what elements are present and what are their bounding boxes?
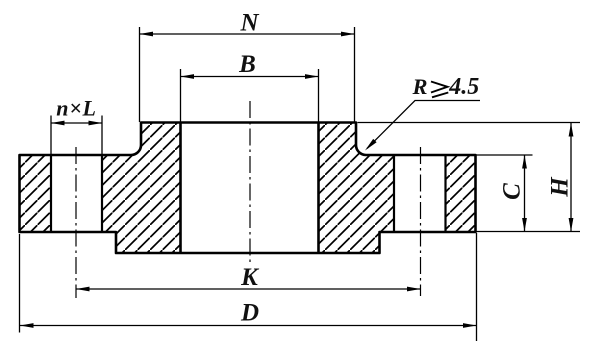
hatch: right outer flange section — [446, 155, 476, 232]
dimension H: top extension line from hub top — [358, 122, 581, 124]
bolt hole right: right edge — [444, 155, 446, 232]
dimension B: right arrow — [305, 74, 319, 79]
dimension nxL: dimension line — [51, 122, 102, 124]
bolt hole left: left edge — [50, 155, 52, 232]
svg-text:N: N — [239, 10, 259, 37]
svg-text:K: K — [240, 264, 260, 291]
outline: flange outer profile with hub and fillets — [20, 123, 476, 254]
dimension N: right arrow — [341, 32, 355, 37]
dimension D: left arrow — [20, 323, 34, 328]
dimension C: top arrow — [522, 155, 527, 169]
dimension D: right arrow — [463, 323, 477, 328]
outline: bore left wall — [179, 123, 182, 254]
leader R>=4.5: slanted greater-equal symbol — [431, 82, 448, 98]
centerline: left bolt hole axis / K extension — [75, 147, 77, 298]
dimension C: bottom arrow — [522, 218, 527, 232]
dimension H: dimension line — [570, 123, 572, 232]
hatch: left hub-to-bore wall section — [102, 123, 181, 254]
dimension D: right extension line — [476, 233, 478, 341]
svg-text:C: C — [499, 183, 526, 200]
centerline: central bore axis — [249, 101, 251, 262]
svg-text:4.5: 4.5 — [448, 74, 479, 100]
dimension B: dimension line — [181, 76, 319, 78]
hatch: left outer flange section — [20, 155, 52, 232]
dimension K: left arrow — [76, 287, 90, 292]
leader R>=4.5: arrowhead at fillet — [365, 139, 377, 151]
dimension N: extension lines — [139, 27, 141, 122]
leader R>=4.5: shoulder and diagonal — [367, 101, 480, 149]
dimension nxL: right arrow — [89, 121, 103, 126]
dimension K: right arrow — [407, 287, 421, 292]
bolt hole right: left edge — [393, 155, 395, 232]
dimension B: left arrow — [181, 74, 195, 79]
svg-text:D: D — [240, 299, 259, 326]
dimension N: dimension line — [140, 33, 355, 35]
bolt hole left: right edge — [101, 155, 103, 232]
dimension H: bottom arrow — [569, 218, 574, 232]
dimension N: left arrow — [140, 32, 154, 37]
dimension nxL: extension lines — [50, 116, 52, 156]
dimension H: top arrow — [569, 123, 574, 137]
svg-text:B: B — [238, 51, 256, 78]
dimension K: dimension line — [76, 288, 421, 290]
dimension C and H: bottom extension line — [477, 231, 581, 233]
dimension C: dimension line — [524, 155, 526, 232]
dimension nxL: left arrow — [51, 121, 65, 126]
svg-text:H: H — [547, 176, 574, 198]
svg-text:R: R — [412, 74, 428, 99]
centerline: right bolt hole axis / K extension — [420, 147, 422, 296]
svg-text:n×L: n×L — [56, 96, 97, 121]
dimension B: extension lines — [180, 69, 182, 122]
dimension D: left extension line — [19, 234, 21, 333]
hatch: right hub-to-bore wall section — [319, 123, 395, 254]
outline: bore right wall — [317, 123, 320, 254]
dimension D: dimension line — [20, 325, 477, 327]
dimension C: top extension line — [477, 154, 533, 156]
